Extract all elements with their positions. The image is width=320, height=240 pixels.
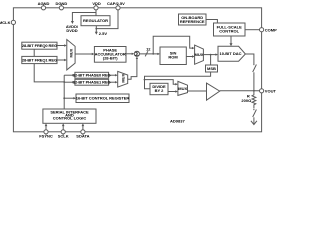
MSB block	[206, 65, 218, 72]
pin VOUT	[260, 89, 264, 93]
wire full-scale to DAC	[230, 36, 232, 45]
wire buffer to VOUT	[220, 90, 260, 92]
bus width slash 12	[145, 51, 148, 56]
svg-text:MCLK: MCLK	[0, 20, 11, 25]
buffer amplifier	[207, 83, 220, 100]
node B dac data junction	[210, 54, 212, 56]
mux M2 output select	[178, 81, 188, 95]
wire mux to buffer	[188, 90, 207, 92]
svg-text:CONTROL LOGIC: CONTROL LOGIC	[53, 116, 87, 121]
ground AGND arrow	[253, 117, 255, 124]
svg-text:VDD: VDD	[92, 1, 101, 6]
resistor R 200ohm	[252, 91, 256, 109]
serial interface and control logic	[43, 109, 96, 123]
wire divide to output mux	[168, 91, 176, 93]
register PHASE0	[75, 72, 109, 78]
mux M1 freq select	[67, 40, 75, 70]
switch S1	[253, 65, 257, 73]
pin COMP	[260, 28, 264, 32]
pin stub SCLK	[62, 134, 64, 135]
svg-text:MUX: MUX	[195, 52, 204, 57]
reference	[179, 14, 207, 25]
svg-text:VOUT: VOUT	[265, 88, 277, 93]
wire adder to SIN ROM	[140, 53, 159, 55]
svg-text:SCLK: SCLK	[58, 134, 69, 139]
label sigma	[135, 52, 138, 56]
svg-text:MUX: MUX	[120, 73, 125, 82]
svg-text:AGND: AGND	[38, 1, 50, 6]
pin stub VDD	[95, 4, 97, 6]
wire FSYNC pin	[45, 125, 47, 130]
SIN ROM	[160, 47, 186, 65]
pin MCLK	[11, 20, 15, 24]
svg-text:(28-BIT): (28-BIT)	[103, 55, 119, 60]
wire VDD to regulator	[95, 10, 97, 16]
mux M4 phase select	[118, 71, 128, 87]
pin FSYNC	[44, 130, 48, 134]
svg-text:MUX: MUX	[68, 48, 73, 57]
wire phase mux to adder	[128, 58, 137, 79]
pin AGND	[41, 6, 45, 10]
divide by 2	[150, 83, 168, 94]
svg-text:CAP/2.5V: CAP/2.5V	[107, 1, 125, 6]
wire triangle bypass over SIN ROM	[153, 36, 193, 54]
svg-text:28-BIT FREQ0 REG: 28-BIT FREQ0 REG	[22, 43, 57, 48]
pin DGND	[59, 6, 63, 10]
wire SDATA pin	[82, 125, 84, 130]
wire accumulator to adder	[126, 53, 133, 55]
node A phase data junction	[152, 53, 154, 55]
svg-text:ROM: ROM	[168, 55, 178, 60]
wire full-scale to COMP pin	[245, 29, 260, 31]
wire FREQ1 to mux	[57, 59, 65, 61]
wire switch to vout node	[253, 72, 255, 91]
svg-text:REFERENCE: REFERENCE	[180, 19, 205, 24]
wire regulator output	[95, 26, 97, 33]
svg-text:DGND: DGND	[56, 1, 68, 6]
wire msb to output mux upper	[145, 80, 177, 85]
wire SCLK pin	[62, 125, 64, 130]
node E spine junction	[63, 81, 65, 83]
svg-text:FSYNC: FSYNC	[39, 134, 53, 139]
wire reference to full-scale control	[206, 20, 217, 24]
wire DAC output	[245, 54, 254, 64]
svg-text:MUX: MUX	[178, 86, 187, 91]
wire AVDD/DVDD branch	[72, 13, 96, 23]
wire FREQ0 to mux	[57, 45, 65, 47]
chip boundary AD9837	[13, 8, 261, 132]
svg-text:2.5V: 2.5V	[99, 31, 108, 36]
full-scale control	[214, 23, 246, 36]
node D vout junction	[253, 90, 255, 92]
wire SIN ROM to mux	[186, 56, 193, 58]
register PHASE1	[75, 79, 109, 85]
wire PHASE0 to mux	[109, 74, 116, 76]
phase accumulator	[94, 47, 126, 63]
svg-text:MSB: MSB	[207, 66, 216, 71]
svg-text:DVDD: DVDD	[66, 28, 77, 33]
adder sigma	[134, 51, 139, 56]
mux M3 dac select	[195, 45, 204, 64]
wire spine to control register	[64, 97, 74, 99]
switch S2	[253, 110, 257, 118]
pin stub SDATA	[82, 134, 84, 135]
wire to MSB block	[210, 55, 212, 65]
svg-text:REGULATOR: REGULATOR	[83, 18, 108, 23]
register FREQ0	[22, 42, 57, 49]
pin stub CAP/2.5V	[117, 4, 119, 6]
svg-text:12-BIT PHASE1 REG: 12-BIT PHASE1 REG	[73, 80, 111, 85]
svg-text:10-BIT DAC: 10-BIT DAC	[219, 51, 241, 56]
wire regulator to CAP pin	[96, 10, 118, 29]
pin SCLK	[61, 130, 65, 134]
wire spine to PHASE1	[64, 81, 73, 83]
wire PHASE1 to mux	[109, 81, 116, 83]
pin stub FSYNC	[45, 134, 47, 135]
wire msb to divide by 2	[145, 80, 151, 89]
svg-text:200Ω: 200Ω	[241, 98, 252, 103]
svg-text:16-BIT CONTROL REGISTER: 16-BIT CONTROL REGISTER	[76, 96, 130, 101]
wire mux to phase accumulator	[75, 53, 93, 55]
svg-text:AD9837: AD9837	[170, 118, 185, 123]
wire spine	[63, 75, 65, 109]
register FREQ1	[22, 56, 57, 63]
wire spine to PHASE0	[64, 74, 73, 76]
node C msb junction	[144, 79, 146, 81]
svg-text:CONTROL: CONTROL	[219, 29, 239, 34]
svg-text:12: 12	[146, 46, 151, 51]
svg-text:12-BIT PHASE0 REG: 12-BIT PHASE0 REG	[73, 73, 111, 78]
svg-text:SDATA: SDATA	[76, 134, 89, 139]
svg-text:BY 2: BY 2	[155, 88, 165, 93]
svg-text:28-BIT FREQ1 REG: 28-BIT FREQ1 REG	[22, 58, 57, 63]
svg-text:COMP: COMP	[265, 27, 277, 32]
wire MSB down and left	[145, 72, 211, 80]
regulator U-REG	[81, 16, 110, 26]
pin CAP/2.5V	[116, 6, 120, 10]
pin SDATA	[81, 130, 85, 134]
pin VDD	[94, 6, 98, 10]
DAC 10-bit	[218, 46, 245, 61]
wire freq write bus	[33, 49, 35, 56]
pin stub DGND	[60, 4, 62, 6]
pin stub AGND	[43, 4, 45, 6]
control register 16-bit	[76, 94, 129, 103]
node F spine junction	[63, 97, 65, 99]
wire mux to DAC	[203, 54, 216, 56]
